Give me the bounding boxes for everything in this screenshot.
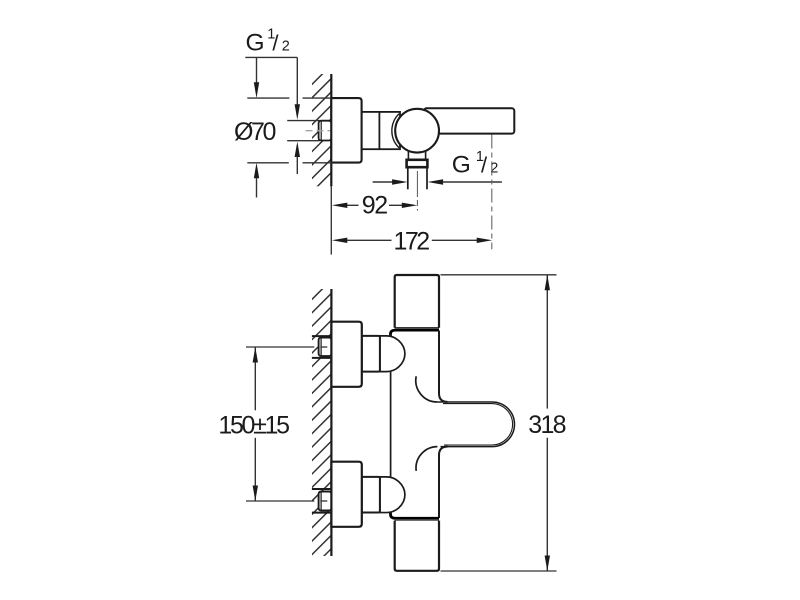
92 right line (389, 204, 403, 206)
body left edge (390, 334, 392, 514)
body right edge upper, curving into lever top line (439, 331, 448, 402)
lower thick ring line (391, 513, 440, 519)
172 left arrowhead (332, 238, 348, 243)
outlet G1/2 left arrowhead (pointing left) (428, 179, 444, 184)
lever bottom curl (416, 447, 437, 471)
outlet tube left line (407, 167, 409, 189)
lower pipe stub (bottom view) (319, 492, 332, 511)
wall face line (top view) (330, 74, 332, 186)
outlet neck below cartridge (408, 149, 425, 160)
92 right arrowhead (402, 203, 418, 208)
318 bottom extension line (441, 570, 557, 572)
150 lower extension line (246, 500, 314, 502)
pipe stub hole lines (top view) (287, 120, 319, 122)
body top cap (395, 275, 439, 328)
svg-text:/: / (272, 31, 279, 56)
Ø70 lower arrow tail (256, 178, 258, 198)
pipe stub union inner line (320, 121, 322, 140)
318 top arrowhead (545, 275, 550, 291)
upper inlet boss (380, 336, 405, 372)
Ø70 upper arrowhead (down) (254, 82, 259, 98)
318 bottom arrowhead (545, 556, 550, 572)
wall hatching (bottom view) (312, 289, 331, 556)
upper pipe stub (bottom view) (319, 338, 332, 357)
outlet tube right line (426, 167, 428, 189)
lever top curl (416, 376, 438, 402)
172 right arrowhead (477, 238, 493, 243)
150 dimension line lower (254, 438, 256, 501)
svg-text:92: 92 (362, 191, 388, 219)
G1/2 leader line (245, 56, 297, 58)
body bottom cap (395, 521, 439, 571)
body top cap bottom edge (thin) (395, 327, 439, 329)
92 left line (347, 204, 359, 206)
Ø70 upper arrow line (256, 57, 258, 83)
upper union nut (362, 336, 380, 372)
318 top extension line (441, 274, 557, 276)
outlet union nut (407, 160, 428, 167)
Ø70 top extension line (247, 97, 289, 99)
wall hatching (top view) (312, 74, 331, 186)
lower hole lines in wall (312, 488, 332, 490)
150 upper extension line (246, 346, 314, 348)
lower union nut (362, 477, 380, 513)
body bottom cap top edge (thin) (395, 520, 439, 522)
body neck between flange and cartridge (362, 112, 400, 149)
body neck divider line (378, 112, 380, 149)
G1/2 arrow line down (296, 57, 298, 105)
wall face line (bottom view) (330, 289, 332, 556)
lever loop inner highlight line (443, 404, 513, 445)
outlet G1/2 right arrowhead (pointing right) (392, 179, 408, 184)
svg-text:G: G (452, 152, 471, 179)
lever end extension line (dashed) (491, 135, 493, 250)
wall escutcheon flange (top view) (331, 98, 361, 163)
lever handle (side view) (424, 108, 514, 133)
318 dimension line upper (546, 275, 548, 409)
172 left line (347, 239, 392, 241)
upper thick ring line (391, 330, 440, 336)
G1/2 pipe stub in wall (top view) (319, 121, 332, 141)
172 right line (432, 239, 478, 241)
Ø70 bottom extension line (247, 162, 288, 164)
G1/2 arrowhead up (295, 142, 300, 158)
upper escutcheon flange (bottom view) (331, 322, 361, 387)
outlet G1/2 left arrow line (373, 181, 393, 183)
upper hole lines in wall (312, 335, 332, 337)
wall face extension line down to dimensions (330, 186, 332, 254)
outlet centerline (416, 171, 418, 211)
cartridge housing circle (395, 109, 439, 153)
lower inlet boss (380, 477, 405, 513)
svg-text:172: 172 (394, 227, 431, 255)
150 dimension line upper (254, 347, 256, 410)
svg-text:/: / (481, 153, 488, 178)
92 left arrowhead (332, 203, 348, 208)
G1/2 arrowhead down (295, 104, 300, 120)
150 lower arrowhead (253, 486, 258, 502)
Ø70 lower arrowhead (up) (254, 163, 259, 179)
cartridge rear arc (392, 114, 399, 148)
G1/2 arrow tail below (296, 157, 298, 175)
lever loop outer outline (plan view) (438, 402, 515, 447)
outlet G1/2 right arrow line (443, 181, 502, 183)
upper stub inner line (320, 338, 322, 356)
pipe stub centerline (gray dashes) (306, 130, 331, 132)
318 dimension line lower (546, 438, 548, 571)
svg-text:G: G (246, 30, 265, 57)
150 upper arrowhead (253, 347, 258, 363)
body right edge lower, curving from lever bottom line (439, 447, 448, 518)
lower escutcheon flange (bottom view) (331, 462, 361, 527)
svg-text:Ø70: Ø70 (234, 118, 276, 146)
svg-text:2: 2 (282, 39, 290, 55)
svg-text:150±15: 150±15 (218, 412, 290, 440)
lower stub inner line (320, 492, 322, 510)
svg-text:318: 318 (528, 411, 566, 439)
